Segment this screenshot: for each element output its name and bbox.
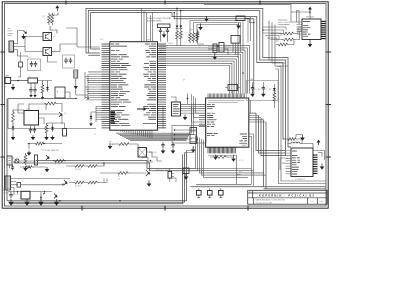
ic U3 outline <box>24 111 39 126</box>
svg-text:L?: L? <box>296 141 298 143</box>
transistor Q4 <box>15 159 19 163</box>
ic U6 right pin blocks <box>313 155 318 156</box>
svg-text:U?: U? <box>29 76 31 78</box>
ic U2 bottom pin numbers <box>208 154 236 156</box>
ground D8 <box>90 122 92 124</box>
ic U2 left pin names A <box>207 104 215 108</box>
resistor R15 <box>196 30 199 41</box>
terminal dots <box>174 129 176 131</box>
wire U1 top taps <box>142 9 153 42</box>
ic U1 left pin stubs <box>102 44 110 128</box>
ground mid1 <box>109 143 111 146</box>
power VCC1 <box>56 8 58 11</box>
svg-text:J?: J? <box>5 87 7 89</box>
wire long audio pair a <box>36 161 196 169</box>
capacitor C14 <box>11 165 14 171</box>
wire bundle staircase <box>196 135 267 177</box>
wire speaker row <box>142 152 162 162</box>
capacitor C6 <box>262 85 265 91</box>
wire U3 out <box>39 104 63 125</box>
ground U5 <box>309 40 311 45</box>
ic U6 pin names left <box>292 151 300 174</box>
wire U5 vert pair <box>297 11 300 25</box>
resistor R17 <box>273 91 276 103</box>
ground C6 <box>262 91 264 93</box>
capacitor C5 <box>251 85 254 91</box>
wire bus U1 right to U2 top fan <box>159 46 250 94</box>
wire U1 bottom bundle right <box>116 133 190 140</box>
wire B2 top <box>163 94 188 129</box>
ground Q5 <box>46 167 48 169</box>
wire bottom bus 1 <box>7 201 187 204</box>
ic U2 left pin names C <box>207 134 218 136</box>
svg-text:ACCESSORIES: ACCESSORIES <box>147 20 162 23</box>
battery BT1 box <box>55 87 65 98</box>
ground B2 <box>184 115 186 118</box>
resistor R18 <box>282 32 296 35</box>
ic U1 dark pin block <box>111 112 116 123</box>
svg-text:MAIN BOARD AUDIO / LOGIC SEC: MAIN BOARD AUDIO / LOGIC SECTION <box>256 199 286 202</box>
ic U5 left pin stubs <box>297 22 303 34</box>
svg-text:KOPERNIK - PCS/CAI B3: KOPERNIK - PCS/CAI B3 <box>259 193 315 197</box>
ground U2 bottom 2 <box>215 155 217 157</box>
wire long audio pair b <box>14 161 198 171</box>
ic U6 left pin stubs <box>286 151 292 174</box>
ic U1 left pin names <box>111 44 131 126</box>
resistor R2 <box>41 83 44 95</box>
wire top bus feed left a <box>86 49 100 55</box>
ground J1 <box>12 84 14 87</box>
wire R3 link <box>13 110 24 135</box>
wire J2 drop <box>18 52 21 77</box>
crystal X1 <box>7 156 12 165</box>
resistor R10 <box>176 29 179 41</box>
resistor R24 <box>286 138 298 141</box>
resistor R16 <box>212 156 228 159</box>
resistor R13 <box>192 31 195 43</box>
wire U1 bottom comb <box>121 130 153 138</box>
resistor R3 <box>12 110 15 124</box>
ground U2 bottom <box>233 155 235 159</box>
wire nest wrap below U6 b <box>275 69 326 184</box>
wire top bus jog 2 <box>174 13 254 94</box>
led D6 <box>176 8 178 25</box>
box small TB <box>183 168 189 174</box>
jumper JP3 <box>219 191 224 196</box>
resistor R28 <box>86 181 99 184</box>
ic U2 left pin stubs B <box>199 113 206 126</box>
osc B1 pins <box>233 43 238 58</box>
wire J6 links <box>208 46 231 55</box>
transistor Q1 box <box>43 33 52 41</box>
ground R2 <box>42 95 44 97</box>
wire R15 stub <box>198 41 205 45</box>
ground J5 <box>214 53 216 57</box>
svg-text:RP?: RP? <box>190 30 193 32</box>
wire long row 128 <box>8 99 96 129</box>
ground handset <box>28 151 30 153</box>
wire nest link verticals <box>269 21 288 67</box>
wire U5 left link <box>204 5 310 22</box>
ground mid right <box>302 135 304 138</box>
wire nest bundle v3 <box>261 118 286 156</box>
wire top bus line 1 <box>86 8 291 147</box>
ic U2 outline <box>206 98 249 147</box>
capacitor C12 <box>29 127 32 133</box>
ground C12 <box>32 135 34 137</box>
wire R25 row <box>66 163 104 166</box>
ic U2 right pin names <box>239 134 247 143</box>
wire VCC U5 stem <box>309 13 311 20</box>
sheet inner border <box>4 4 326 206</box>
resistor R26 <box>86 165 99 168</box>
cap group box CB2 <box>63 55 75 68</box>
terminal box TB2 <box>172 126 206 144</box>
svg-text:R?: R? <box>262 119 264 121</box>
svg-text:R? 100K: R? 100K <box>75 169 81 171</box>
svg-text:KS57C: KS57C <box>242 145 248 147</box>
capacitor C18 <box>171 142 174 148</box>
ic B2 text rows <box>173 105 180 114</box>
resistor R11 <box>179 29 182 41</box>
capacitor C16 <box>9 192 12 198</box>
ground C10 <box>30 93 32 95</box>
transistor Q7 <box>146 170 150 176</box>
svg-text:VBB: VBB <box>250 79 253 81</box>
ic U1 right pin names <box>143 44 156 124</box>
junction led taps <box>176 8 178 10</box>
ic U6 outline <box>291 148 313 177</box>
sheet outer border <box>2 2 328 208</box>
svg-text:1K: 1K <box>118 179 121 181</box>
capacitor C1 <box>159 28 162 34</box>
svg-text:Q?: Q? <box>64 113 66 115</box>
resistor R29 <box>277 43 290 46</box>
ground U6 right <box>321 164 323 167</box>
resistor R1b <box>51 13 54 25</box>
wire U2 left vert bundle <box>192 94 200 122</box>
svg-text:AUDIO: AUDIO <box>4 192 10 195</box>
resistor R4 <box>34 142 46 145</box>
wire R16 down <box>210 155 241 184</box>
ic U1 right pin stubs <box>158 44 167 128</box>
osc B1 box <box>231 36 240 44</box>
wire row167 <box>20 166 46 168</box>
transistor Q2 box <box>43 48 52 56</box>
wire q row to U1 <box>77 46 100 48</box>
wire bottom bus risers <box>183 151 187 204</box>
ground D2 <box>12 135 14 137</box>
transistor Q5 <box>46 155 49 160</box>
crystal Y2 <box>228 85 238 91</box>
diode D3 <box>52 125 54 127</box>
ground GTM <box>200 24 202 28</box>
regulator VR1 box <box>28 78 38 83</box>
wire handset link <box>10 158 37 168</box>
junction dots <box>253 22 255 24</box>
ic U2 top pin hatch <box>208 94 244 99</box>
connector J5 <box>213 44 217 52</box>
resistor R27 <box>73 181 86 184</box>
ground C11 <box>34 93 36 95</box>
resistor R25 <box>73 165 86 168</box>
wire left loop verticals <box>85 72 96 122</box>
connector J1 <box>5 78 11 84</box>
capacitor C8 <box>69 58 72 64</box>
svg-text:J?: J? <box>200 123 202 125</box>
box small XB <box>19 62 23 67</box>
svg-text:XTAL1: XTAL1 <box>168 42 173 45</box>
transistor Q8 <box>64 180 67 185</box>
wire C9 down <box>76 90 88 99</box>
capacitor C13 <box>33 127 36 133</box>
wire bundle to U2 stubs <box>192 106 194 134</box>
junction bus jog <box>174 12 175 13</box>
junction U4 <box>43 193 45 195</box>
ic A1 box <box>236 16 245 21</box>
wire BT1 link <box>60 92 70 99</box>
svg-text:1 of 1: 1 of 1 <box>320 201 324 203</box>
wire audio mid <box>21 183 63 185</box>
resistor R8 <box>116 172 130 175</box>
ground crystal <box>163 33 165 35</box>
svg-text:U?: U? <box>183 80 185 82</box>
relay K1 box <box>138 148 147 158</box>
wire J2 fan <box>14 31 28 57</box>
diode D2 <box>12 124 14 126</box>
ic U2 top pin numbers <box>208 100 244 102</box>
svg-text:VCC: VCC <box>100 39 104 41</box>
ground C18 <box>172 149 174 151</box>
svg-text:C? 0.1: C? 0.1 <box>239 160 244 162</box>
wire riser tops <box>185 147 197 153</box>
svg-text:J?: J? <box>218 186 220 188</box>
svg-text:R?: R? <box>118 176 120 178</box>
jumper JP2 <box>208 191 213 196</box>
junction J1 <box>17 80 19 82</box>
svg-text:OPTIONAL HANDSET: OPTIONAL HANDSET <box>42 149 59 152</box>
svg-text:Q?: Q? <box>53 36 55 38</box>
svg-text:C? 0.1UF: C? 0.1UF <box>254 89 261 91</box>
svg-text:R? 100K: R? 100K <box>75 186 81 188</box>
wire led bottoms <box>177 41 181 46</box>
svg-text:Y?: Y? <box>165 29 167 31</box>
resistor R5 <box>24 153 27 165</box>
wire title feed line 1 <box>264 187 327 189</box>
wire handset row <box>28 144 63 150</box>
capacitor C15 <box>17 183 21 188</box>
led D7 <box>180 11 182 26</box>
ground C5 <box>252 91 254 93</box>
svg-text:D?: D? <box>176 14 178 16</box>
crystal Y1 body <box>158 24 171 28</box>
small box SB1 <box>63 129 67 137</box>
junction B2 top <box>187 98 189 100</box>
resistor R20 <box>44 102 58 105</box>
ground Q6 <box>56 199 58 202</box>
ground Q7 <box>148 181 150 184</box>
ground GTM2 <box>206 16 208 19</box>
svg-text:C? C?: C? C? <box>27 57 31 59</box>
wire nest bundle v2 <box>259 115 286 153</box>
ground R5 <box>25 166 27 168</box>
capacitor C17 <box>161 142 164 148</box>
border zone ticks <box>1 1 332 211</box>
transistor Q3 <box>59 112 62 117</box>
ic U2 bottom pin hatch <box>208 147 235 153</box>
svg-text:U? MSM7512: U? MSM7512 <box>295 179 305 181</box>
wire nest wrap below U6 a <box>277 67 326 182</box>
connector J3 <box>5 176 11 190</box>
wire U1 left fan <box>85 72 102 119</box>
svg-text:Thursday, June 12, 1997: Thursday, June 12, 1997 <box>256 201 273 204</box>
wire U2 right stub bundle <box>249 113 266 122</box>
ground A1 <box>238 23 240 26</box>
title block inner lines <box>248 190 327 204</box>
ic U2 left pin stubs A <box>199 104 206 108</box>
wire Q3 down <box>47 116 65 129</box>
wire fan into U5 <box>263 27 286 42</box>
resistor R22 <box>23 166 34 169</box>
wire nest bundle v1 <box>256 113 286 150</box>
wire nest bundle v4 <box>263 120 265 187</box>
text phone rows <box>3 188 11 190</box>
inductor L1 <box>288 144 313 149</box>
svg-text:C?: C? <box>94 134 96 136</box>
svg-text:J?: J? <box>207 186 209 188</box>
wire left edge loop <box>7 99 8 201</box>
crystal Y1 pins <box>161 28 168 42</box>
text stack left <box>8 29 13 36</box>
wire top bus line 2 <box>88 11 285 156</box>
wire U6 left feed <box>280 158 286 170</box>
resistor R6 box <box>35 155 38 165</box>
terminal rows <box>175 130 197 139</box>
wire pair link <box>103 163 105 183</box>
capacitor C3 <box>30 61 33 67</box>
wire U4 row <box>8 192 52 196</box>
ground J4 arrow <box>192 146 194 150</box>
connector J6 <box>219 43 224 53</box>
diode D1 <box>47 85 49 87</box>
wire gnd mid stem <box>296 135 303 138</box>
wire J3 fan <box>11 179 70 196</box>
wire battery row <box>8 98 76 100</box>
wire A1 link <box>245 18 254 22</box>
wire Q1 left <box>25 37 43 52</box>
title block outline <box>248 190 327 204</box>
ground U4a <box>26 199 28 202</box>
wire J1 out <box>11 80 28 82</box>
svg-text:R?: R? <box>43 16 45 18</box>
speaker SP1 <box>168 172 172 179</box>
ic U5 outline <box>302 19 321 40</box>
transistor arrow J2 <box>23 31 27 34</box>
junction bottom row <box>17 191 19 193</box>
ic U5 pin names <box>303 22 310 37</box>
text NC blob <box>278 20 290 24</box>
ic U1 arrow marker <box>137 107 147 111</box>
wire R17 bottom <box>273 103 275 108</box>
cap group box CB1 <box>28 59 41 71</box>
resistor R23 <box>117 143 131 146</box>
ground R21 <box>46 135 48 137</box>
svg-text:J?: J? <box>196 186 198 188</box>
wire U3 top loop <box>18 104 46 113</box>
ic U2 left pin names B <box>207 113 217 126</box>
ic U1 outline <box>110 42 158 131</box>
svg-text:C? 0.1UF: C? 0.1UF <box>265 89 272 91</box>
wire R1 top <box>50 13 58 34</box>
wire pullup tops <box>190 21 243 55</box>
capacitor C7 <box>64 58 67 64</box>
ground C17 <box>162 149 164 151</box>
ic U4 outline <box>21 191 30 199</box>
diode D4 <box>40 195 42 197</box>
svg-text:R? 10K: R? 10K <box>55 164 61 166</box>
transistor Q6 <box>54 194 57 199</box>
svg-text:5: 5 <box>120 135 121 137</box>
wire Q1 right <box>48 28 78 62</box>
wire R27 row <box>69 179 107 183</box>
capacitor C2 <box>166 28 169 34</box>
wire R24 link <box>286 139 303 144</box>
wire nest U2 right extra <box>249 134 254 186</box>
caps cluster box <box>247 81 279 101</box>
jumper JP1 <box>197 191 202 196</box>
ground C16 <box>10 199 12 202</box>
wire title feed line 2 <box>191 185 267 187</box>
wire R18 path <box>271 28 303 40</box>
wire nest bundle v5 <box>265 122 267 189</box>
svg-text:+: + <box>57 91 59 94</box>
wire J6 feed taps <box>248 17 251 43</box>
wire mic row <box>100 172 146 174</box>
wire D8 top <box>91 112 96 114</box>
wire U2 left links <box>181 104 206 113</box>
resistor R19 <box>282 38 296 41</box>
resistor R21 <box>45 123 48 135</box>
resistor R1a <box>48 13 51 25</box>
led D5 <box>273 84 275 88</box>
ground D4 <box>40 201 42 202</box>
ground D3 <box>52 135 54 137</box>
resistor R12 <box>189 31 192 43</box>
ic B2 box <box>172 102 181 116</box>
power VCC U5 <box>309 10 311 14</box>
connector J4 <box>190 128 197 144</box>
electrolytic C9 <box>74 70 78 78</box>
resistor R14 <box>196 31 199 43</box>
diode D8 <box>90 114 92 116</box>
svg-text:1.0: 1.0 <box>311 201 313 203</box>
ic U5 right pin blocks <box>322 21 326 22</box>
capacitor C11 <box>33 87 36 93</box>
power VCC U6 <box>318 143 320 146</box>
wire caps box drop <box>251 100 257 113</box>
wire R23 link <box>110 141 138 148</box>
capacitor C10 <box>29 87 32 93</box>
resistor R7 <box>53 159 66 162</box>
wire R29 link <box>276 40 294 45</box>
connector J2 <box>9 41 14 52</box>
wire speaker out <box>170 178 176 182</box>
ground TB <box>185 174 187 177</box>
wire VR1 out <box>31 81 52 89</box>
wire U6 loop right <box>313 151 325 161</box>
ground J2 <box>23 34 25 36</box>
wire top bus line 3 <box>91 13 286 139</box>
